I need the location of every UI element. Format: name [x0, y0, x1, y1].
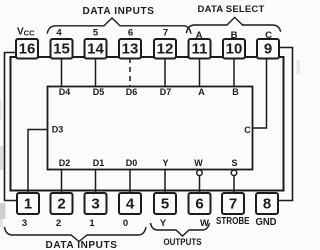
svg-text:B: B: [231, 30, 238, 41]
svg-text:4: 4: [126, 196, 135, 213]
svg-text:6: 6: [128, 28, 133, 39]
pin 14: [85, 39, 107, 59]
svg-text:Y: Y: [160, 218, 167, 229]
svg-text:STROBE: STROBE: [216, 216, 250, 227]
brace: data inputs group pins 15-12: [47, 18, 191, 34]
svg-text:16: 16: [19, 41, 36, 58]
svg-text:0: 0: [123, 218, 128, 229]
svg-text:9: 9: [264, 41, 272, 58]
svg-text:D5: D5: [93, 87, 105, 97]
pin 4: [119, 193, 141, 214]
wire: pin3 to D1: [95, 170, 97, 195]
svg-text:DATA INPUTS: DATA INPUTS: [83, 6, 155, 17]
svg-text:A: A: [198, 87, 205, 97]
svg-text:DATA INPUTS: DATA INPUTS: [46, 240, 118, 250]
wire: pin14 to D5: [95, 58, 97, 87]
svg-text:1: 1: [24, 196, 32, 213]
svg-text:B: B: [232, 87, 239, 97]
svg-text:2: 2: [57, 196, 65, 213]
wire: pin15 to D4: [61, 58, 63, 87]
svg-text:D3: D3: [52, 125, 64, 135]
wire: pin1 to D3 input: [28, 130, 48, 194]
function box U1: [48, 87, 253, 170]
pin 1: [17, 193, 39, 214]
pin 11: [189, 39, 211, 59]
svg-text:5: 5: [93, 28, 99, 39]
wire: S bubble to pin7: [233, 176, 235, 194]
pin 5: [154, 193, 176, 214]
svg-text:D7: D7: [160, 87, 172, 97]
brace: outputs group pins 5-6: [151, 223, 210, 236]
pin 16: [16, 39, 38, 59]
svg-text:VCC: VCC: [17, 27, 35, 38]
wire: pin11 to A: [199, 58, 201, 87]
svg-text:D0: D0: [126, 158, 138, 168]
pin 3: [85, 193, 107, 214]
pin 13: [119, 39, 141, 59]
svg-text:7: 7: [229, 196, 237, 213]
wire: pin10 to B: [233, 58, 235, 87]
scan smudge left edge: [0, 60, 300, 227]
svg-text:D6: D6: [126, 87, 138, 97]
wire: pin12 to D7: [164, 58, 166, 87]
svg-text:2: 2: [56, 218, 61, 229]
svg-text:4: 4: [56, 28, 62, 39]
svg-text:1: 1: [89, 218, 95, 229]
svg-text:D4: D4: [59, 87, 71, 97]
wire: pin4 to D0: [129, 170, 131, 195]
svg-text:13: 13: [122, 41, 139, 58]
svg-text:C: C: [265, 30, 272, 41]
svg-text:DATA SELECT: DATA SELECT: [198, 4, 265, 15]
wire: pin2 to D2: [61, 170, 63, 195]
pin 12: [154, 39, 176, 59]
svg-text:14: 14: [87, 41, 104, 58]
svg-text:8: 8: [263, 196, 271, 213]
svg-text:7: 7: [163, 28, 168, 39]
svg-text:Y: Y: [162, 158, 168, 168]
svg-text:OUTPUTS: OUTPUTS: [164, 237, 202, 248]
wire: pin9 to C input: [253, 58, 267, 128]
brace: data select group pins 11-9: [186, 17, 280, 33]
pin 6: [189, 193, 211, 214]
svg-text:A: A: [196, 30, 203, 41]
svg-text:5: 5: [161, 196, 169, 213]
wire: W bubble to pin6: [199, 176, 201, 194]
package outline (DIP-16 body): [11, 57, 284, 191]
wire: pin13 to D6 (dashed in scan): [129, 58, 131, 87]
pin 8: [256, 193, 278, 214]
svg-text:W: W: [194, 158, 203, 168]
svg-text:3: 3: [22, 218, 27, 229]
svg-text:GND: GND: [256, 217, 277, 228]
svg-text:10: 10: [226, 41, 243, 58]
svg-text:S: S: [231, 158, 237, 168]
wire: pin16 VCC around outside left down to pin1: [5, 53, 18, 201]
wire: pin9 C around outside right down to pin8 GND: [278, 48, 293, 201]
svg-text:12: 12: [157, 41, 174, 58]
pin 2: [51, 193, 73, 214]
svg-text:D2: D2: [59, 158, 71, 168]
pin 15: [51, 39, 73, 59]
svg-text:3: 3: [91, 196, 99, 213]
pin 7: [222, 193, 244, 214]
svg-text:C: C: [244, 125, 251, 135]
pin 9: [257, 39, 279, 59]
wire: pin5 to Y: [164, 170, 166, 195]
inversion bubble on W output: [197, 170, 203, 176]
svg-text:15: 15: [53, 41, 70, 58]
pin 10: [223, 39, 245, 59]
brace: data inputs group pins 1-4 (bottom): [5, 227, 147, 242]
svg-text:11: 11: [192, 41, 208, 58]
svg-text:6: 6: [195, 196, 203, 213]
svg-text:D1: D1: [93, 158, 105, 168]
inversion bubble on S strobe input: [231, 170, 237, 176]
